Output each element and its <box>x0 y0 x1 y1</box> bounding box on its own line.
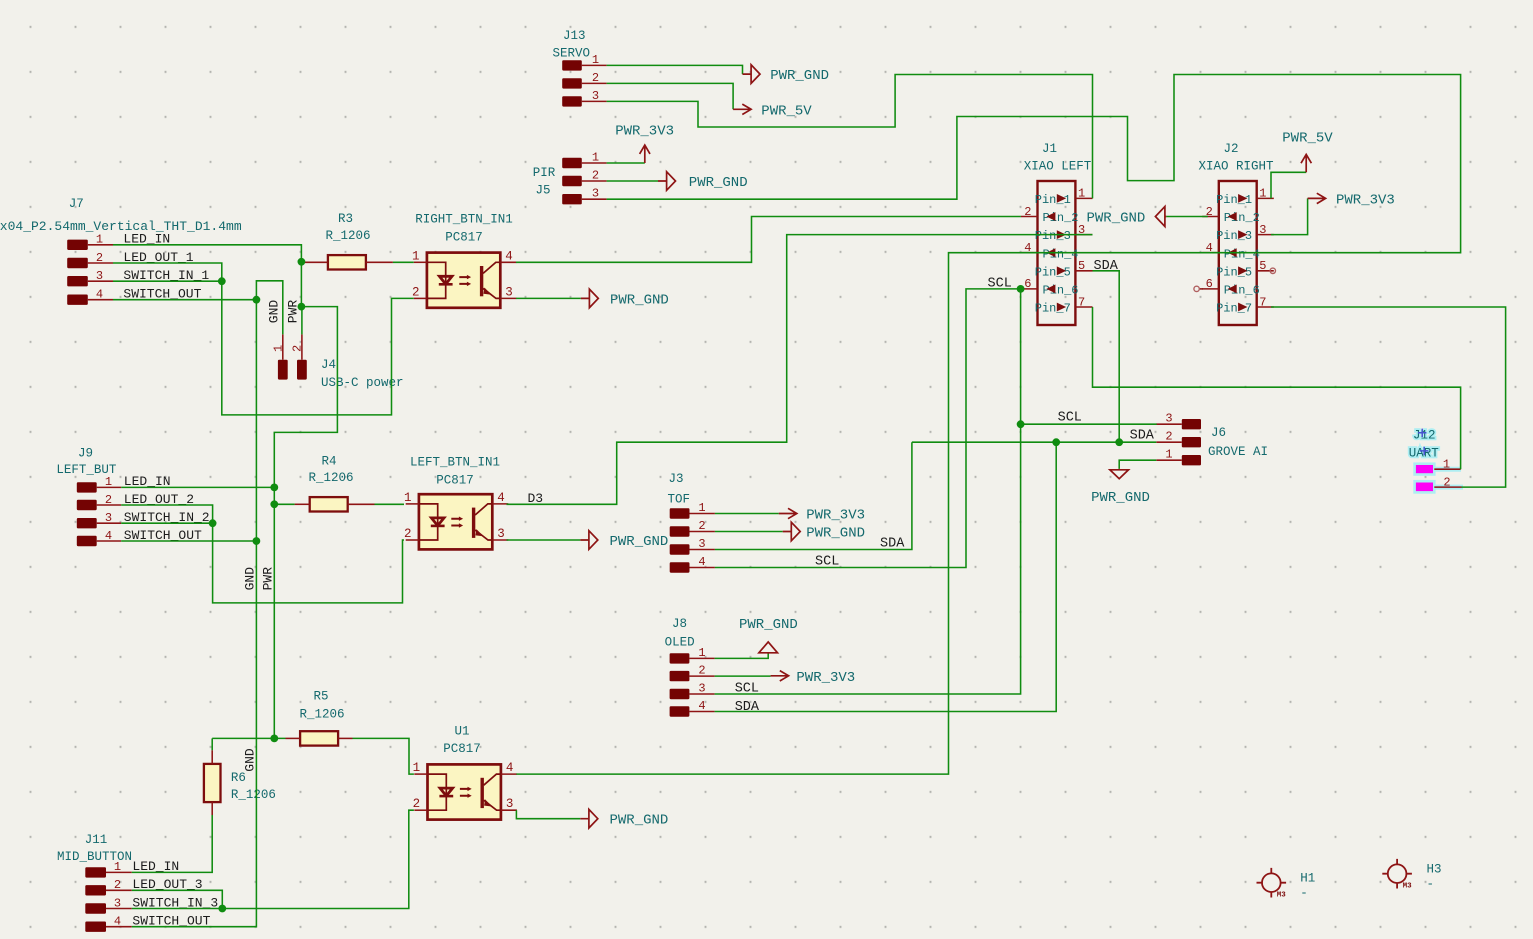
junction at 256.4,541 <box>253 537 261 545</box>
junction at 274.3,738.4 <box>270 735 278 743</box>
J1 pin 2 stub <box>1021 216 1038 218</box>
J12 pin 1 stub <box>1434 468 1460 470</box>
wire J4 pin2 riser <box>301 307 303 335</box>
svg-text:PIR: PIR <box>533 166 556 180</box>
svg-text:7: 7 <box>1259 295 1266 309</box>
wire SDA to J3 pin3 <box>715 442 912 549</box>
svg-text:2: 2 <box>1443 476 1450 490</box>
svg-text:SERVO: SERVO <box>553 47 591 61</box>
svg-text:1: 1 <box>1443 457 1450 471</box>
J2 pin 1 stub <box>1257 197 1274 199</box>
J6 pad 2 <box>1182 437 1201 447</box>
connector J9 LEFT_BUT <box>56 447 209 547</box>
connector J3 TOF <box>667 472 714 573</box>
J13 pad 1 <box>562 60 582 70</box>
svg-text:5: 5 <box>1259 259 1266 273</box>
svg-text:GND: GND <box>243 567 258 591</box>
svg-text:XIAO LEFT: XIAO LEFT <box>1024 160 1092 174</box>
svg-text:2: 2 <box>1024 205 1031 219</box>
connector J5 PIR <box>533 150 607 204</box>
svg-text:PWR_GND: PWR_GND <box>610 534 669 550</box>
svg-text:R_1206: R_1206 <box>308 471 353 485</box>
svg-text:1: 1 <box>698 646 705 660</box>
optocoupler U1 body <box>428 764 501 819</box>
J2 pin 3 input triangle <box>1238 230 1247 239</box>
wire J2 pin7 to J12 pin2 <box>1271 307 1506 487</box>
wire J11 SWITCH_IN_3 to U1 pin2 <box>132 810 414 908</box>
svg-text:2: 2 <box>698 519 705 533</box>
svg-text:Pin_6: Pin_6 <box>1043 284 1079 298</box>
connector J11 MID_BUTTON <box>57 833 218 932</box>
J8 pin 4 stub <box>689 711 714 713</box>
wire J2 pin1 to PWR_5V <box>1271 172 1306 198</box>
svg-text:2: 2 <box>592 71 599 85</box>
power symbol PWR_3V3 at J3 pin1 <box>779 508 797 518</box>
J9 pad 4 <box>77 536 97 546</box>
svg-text:Pin_7: Pin_7 <box>1216 302 1252 316</box>
svg-text:1: 1 <box>404 491 412 505</box>
power symbol PWR_GND at J3 pin2 <box>783 522 801 541</box>
svg-text:6: 6 <box>1206 277 1213 291</box>
J3 pad 4 <box>670 562 690 572</box>
svg-text:3: 3 <box>114 896 121 910</box>
svg-text:PWR_GND: PWR_GND <box>1091 490 1150 506</box>
svg-text:U1: U1 <box>454 724 469 738</box>
power symbol PWR_GND at SERVO pin1 <box>743 65 761 84</box>
power symbol PWR_GND at J2 pin2 pointing left <box>1155 207 1166 227</box>
svg-text:R6: R6 <box>231 771 246 785</box>
J7 pad 3 <box>67 276 88 286</box>
power symbol PWR_5V at SERVO pin2 <box>733 104 751 114</box>
U_left pin 4 stub <box>492 503 508 505</box>
U_right internal LED <box>427 262 446 298</box>
J2 pin 7 stub <box>1257 306 1274 308</box>
wire RIGHT_BTN optocoupler pin4 to J1 pin2 <box>516 217 1021 263</box>
J2 pin 6 open end circle <box>1194 286 1199 291</box>
wire SERVO pin3 5V to J1 pin1 <box>607 75 1093 199</box>
wire J9 SWITCH_IN_2 <box>121 522 212 524</box>
J8 pad 3 <box>670 689 690 699</box>
J5 pin 1 stub <box>582 162 607 164</box>
wire U1 pin3 to PWR_GND <box>516 810 580 819</box>
svg-text:J12: J12 <box>1413 428 1436 442</box>
J4 pin 2 stub <box>301 334 303 359</box>
svg-text:GROVE AI: GROVE AI <box>1208 445 1268 459</box>
svg-text:Pin_7: Pin_7 <box>1035 302 1071 316</box>
J13 pin 1 stub <box>582 64 607 66</box>
U1 phototransistor <box>481 778 484 808</box>
wire PIR pin1 to PWR_3V3 <box>607 162 645 164</box>
wire SDA row to J6 pin2 <box>912 441 1156 443</box>
J13 pin 2 stub <box>582 82 607 84</box>
svg-text:SDA: SDA <box>1130 428 1155 443</box>
J9 pad 2 <box>77 500 97 510</box>
J8 pin 1 stub <box>689 657 714 659</box>
svg-text:7: 7 <box>1078 295 1085 309</box>
J2 pin 5 open end circle <box>1270 268 1275 273</box>
J5 pin 3 stub <box>582 198 607 200</box>
optocoupler U_right body <box>427 253 500 308</box>
svg-text:2: 2 <box>592 168 599 182</box>
J2 pin 5 input triangle <box>1238 266 1247 275</box>
svg-text:4: 4 <box>505 249 513 263</box>
wire PIR pin2 to PWR_GND <box>607 180 658 182</box>
svg-text:TOF: TOF <box>667 493 690 507</box>
junction at 1020.6,424.2 <box>1017 420 1025 428</box>
svg-text:PWR: PWR <box>286 300 301 324</box>
J1 pin 1 input triangle <box>1057 194 1066 203</box>
J6 pad 1 <box>1182 455 1201 465</box>
svg-text:PWR_3V3: PWR_3V3 <box>796 670 855 686</box>
mounting hole H3 <box>1382 859 1412 889</box>
wire SCL to J6 pin3 <box>1021 423 1157 425</box>
J2 pin 7 input triangle <box>1238 303 1247 312</box>
svg-text:GND: GND <box>243 748 258 772</box>
U_left light arrows <box>451 519 460 526</box>
svg-text:R5: R5 <box>313 690 328 704</box>
junction at 1020.6,288.9 <box>1017 285 1025 293</box>
svg-text:1: 1 <box>1259 187 1266 201</box>
J3 pad 3 <box>670 544 690 554</box>
wire J6 pin1 to PWR_GND <box>1119 460 1156 469</box>
J4 pin 1 stub <box>282 334 284 359</box>
wire J2 pin3 to PWR_3V3 <box>1271 198 1308 234</box>
R5 right lead <box>338 737 352 739</box>
svg-text:Pin_2: Pin_2 <box>1043 211 1079 225</box>
svg-text:Pin_6: Pin_6 <box>1224 284 1260 298</box>
wire J7 LED_OUT_1 to optocoupler pin2 <box>113 263 414 415</box>
J2 pin 2 stub <box>1202 216 1219 218</box>
svg-text:1: 1 <box>1078 187 1085 201</box>
J1 pin 5 input triangle <box>1057 266 1066 275</box>
U1 internal LED <box>428 774 447 810</box>
R4 right lead <box>348 503 375 505</box>
resistor R5 <box>300 731 338 745</box>
svg-text:R_1206: R_1206 <box>299 708 344 722</box>
J12 selection cursor marks <box>1418 429 1428 456</box>
svg-text:4: 4 <box>506 761 514 775</box>
svg-text:Pin_3: Pin_3 <box>1216 229 1252 243</box>
R4 left lead <box>295 503 310 505</box>
svg-text:Pin_4: Pin_4 <box>1043 247 1079 261</box>
svg-text:Pin_3: Pin_3 <box>1035 229 1071 243</box>
J12 pad 1 <box>1415 464 1435 475</box>
J11 pad 2 <box>85 885 106 895</box>
svg-text:-: - <box>1300 887 1308 901</box>
J12 pad 2 <box>1415 481 1435 492</box>
power symbol PWR_GND at J6 pin1 pointing down <box>1110 469 1129 479</box>
wire PWR rail from J7 LED_IN <box>113 245 337 739</box>
J7 pin 3 stub <box>88 280 113 282</box>
wire R4 to LEFT_BTN optocoupler pin1 <box>375 503 405 505</box>
J9 pin 1 stub <box>97 486 122 488</box>
svg-text:J7: J7 <box>69 197 84 211</box>
svg-text:J4: J4 <box>321 358 336 372</box>
U1 light arrows <box>460 789 469 796</box>
J7 pad 2 <box>67 258 88 268</box>
svg-text:1: 1 <box>412 249 420 263</box>
J5 pad 3 <box>562 194 582 204</box>
J11 pin 2 stub <box>106 889 132 891</box>
svg-text:PC817: PC817 <box>445 230 483 244</box>
J11 pin 1 stub <box>106 871 132 873</box>
J5 pad 2 <box>562 176 582 186</box>
svg-text:SCL: SCL <box>1058 410 1082 425</box>
svg-text:PWR_3V3: PWR_3V3 <box>615 124 674 140</box>
wire R6 top to R5 left <box>212 737 285 739</box>
svg-text:2: 2 <box>291 345 305 352</box>
svg-text:PWR_GND: PWR_GND <box>806 526 865 542</box>
svg-text:3: 3 <box>698 537 705 551</box>
U_left pin 2 stub <box>406 539 419 541</box>
svg-text:M3: M3 <box>1403 883 1413 891</box>
U1 pin 2 stub <box>414 809 427 811</box>
wire SERVO pin1 to PWR_GND <box>607 65 743 74</box>
J3 pin 3 stub <box>690 549 715 551</box>
svg-text:1: 1 <box>592 53 599 67</box>
J1 pin 7 input triangle <box>1057 303 1066 312</box>
J2 pin 3 stub <box>1257 234 1274 236</box>
optocoupler U_left body <box>419 494 492 549</box>
svg-text:PWR: PWR <box>261 567 276 591</box>
wire J11 LED_OUT_3 <box>132 890 223 908</box>
svg-text:J6: J6 <box>1211 426 1226 440</box>
svg-text:1: 1 <box>272 345 286 352</box>
svg-text:LEFT_BTN_IN1: LEFT_BTN_IN1 <box>410 456 500 470</box>
J9 pin 4 stub <box>97 540 122 542</box>
J6 pin 2 stub <box>1156 441 1182 443</box>
svg-text:J11: J11 <box>85 833 108 847</box>
connector J8 OLED <box>665 617 715 717</box>
U_left phototransistor <box>472 508 475 538</box>
svg-text:2: 2 <box>114 878 121 892</box>
svg-text:SDA: SDA <box>735 700 760 715</box>
svg-text:J5: J5 <box>535 184 550 198</box>
J2 pin 6 stub <box>1202 288 1219 290</box>
J1 pin 6 input triangle <box>1046 285 1055 294</box>
J9 pin 3 stub <box>97 522 122 524</box>
J6 pad 3 <box>1182 419 1201 429</box>
J3 pin 4 stub <box>690 567 715 569</box>
svg-text:SDA: SDA <box>1094 259 1119 274</box>
J2 pin 6 stub extension <box>1199 288 1203 290</box>
svg-text:1: 1 <box>413 761 421 775</box>
J1 pin 3 input triangle <box>1057 230 1066 239</box>
wire GND rail from J4 pin1 to J11 SWITCH_OUT <box>132 281 283 927</box>
svg-text:1x04_P2.54mm_Vertical_THT_D1.4: 1x04_P2.54mm_Vertical_THT_D1.4mm <box>0 219 242 234</box>
J13 pin 3 stub <box>582 100 607 102</box>
svg-text:SCL: SCL <box>735 681 759 696</box>
svg-text:H3: H3 <box>1427 863 1442 877</box>
svg-text:3: 3 <box>592 187 599 201</box>
J3 pad 1 <box>670 508 690 518</box>
wire J1 pin6 SCL to J3 pin4 <box>715 289 1021 568</box>
svg-text:3: 3 <box>592 89 599 103</box>
svg-text:3: 3 <box>497 527 505 541</box>
J7 pin 4 stub <box>88 299 113 301</box>
J2 pin 1 input triangle <box>1238 194 1247 203</box>
J2 pin 2 input triangle <box>1228 212 1237 221</box>
svg-text:SCL: SCL <box>988 277 1012 292</box>
wire J3 pin1 to PWR_3V3 <box>715 513 779 515</box>
wire LEFT_BTN optocoupler pin3 to PWR_GND <box>507 539 581 541</box>
J6 pin 3 stub <box>1156 423 1182 425</box>
J1 pin 2 input triangle <box>1046 212 1055 221</box>
J8 pin 2 stub <box>689 675 714 677</box>
wire R3 to RIGHT_BTN optocoupler pin1 <box>393 261 414 263</box>
U_right light arrows <box>459 277 468 284</box>
J11 pad 1 <box>85 867 106 877</box>
svg-text:R4: R4 <box>321 455 336 469</box>
svg-text:Pin_5: Pin_5 <box>1216 265 1252 279</box>
svg-text:2: 2 <box>96 251 103 265</box>
svg-text:MID_BUTTON: MID_BUTTON <box>57 850 132 864</box>
wire SERVO pin2 to PWR_5V <box>607 83 734 109</box>
svg-text:GND: GND <box>267 300 282 324</box>
U_left pin 1 stub <box>406 503 419 505</box>
connector J7 <box>0 197 242 305</box>
J2 pin 4 input triangle <box>1228 248 1237 257</box>
mounting hole H1 <box>1257 868 1287 898</box>
J9 pin 2 stub <box>97 504 122 506</box>
R6 top lead <box>211 750 213 764</box>
svg-text:SCL: SCL <box>815 555 839 570</box>
wire J9 SWITCH_OUT to GND rail <box>121 540 256 542</box>
svg-text:J8: J8 <box>672 617 687 631</box>
svg-text:6: 6 <box>1024 277 1031 291</box>
J11 pin 4 stub <box>106 926 132 928</box>
connector J13 SERVO <box>553 29 607 107</box>
J1 pin 4 input triangle <box>1046 248 1055 257</box>
J7 pin 1 stub <box>88 244 113 246</box>
wire R6 bottom to J11 LED_IN <box>132 815 212 872</box>
junction at 1056.2,442.2 <box>1052 438 1060 446</box>
wire J2 pin2 to PWR_GND <box>1166 216 1208 218</box>
J5 pin 2 stub <box>582 180 607 182</box>
svg-text:2: 2 <box>698 664 705 678</box>
wire J3 pin2 to PWR_GND <box>715 531 783 533</box>
svg-text:3: 3 <box>506 797 514 811</box>
svg-text:PC817: PC817 <box>443 742 481 756</box>
svg-text:PWR_3V3: PWR_3V3 <box>1336 192 1395 208</box>
wire D3 net optocoupler pin4 to J1 pin3 <box>507 235 1093 505</box>
svg-text:LEFT_BUT: LEFT_BUT <box>56 463 117 477</box>
svg-text:Pin_4: Pin_4 <box>1224 247 1260 261</box>
wire J7 SWITCH_OUT to GND rail <box>113 299 256 301</box>
junction at 212.6,523.2 <box>209 519 217 527</box>
wire R5 to U1 pin1 <box>353 738 414 774</box>
svg-text:PWR_5V: PWR_5V <box>1282 131 1333 147</box>
power symbol PWR_5V at J2 pin1 <box>1301 154 1311 172</box>
svg-text:PWR_GND: PWR_GND <box>1086 211 1145 227</box>
svg-text:2: 2 <box>412 285 420 299</box>
svg-text:4: 4 <box>105 529 112 543</box>
junction at 301.4,306.6 <box>298 303 306 311</box>
connector J1 box <box>1038 181 1076 325</box>
junction at 256.4,299.7 <box>253 296 261 304</box>
svg-text:J13: J13 <box>563 29 586 43</box>
svg-text:D3: D3 <box>528 491 544 506</box>
svg-text:4: 4 <box>96 288 103 302</box>
junction at 301.4,261.8 <box>298 258 306 266</box>
wire PWR rail to R4 <box>274 503 294 505</box>
svg-text:PWR_GND: PWR_GND <box>610 292 669 308</box>
wire J9 LED_OUT_2 to optocoupler pin2 <box>121 505 404 603</box>
junction at 221.8,281.2 <box>218 277 226 285</box>
svg-text:3: 3 <box>105 511 112 525</box>
svg-text:3: 3 <box>96 269 103 283</box>
svg-text:4: 4 <box>114 915 121 929</box>
J11 pin 3 stub <box>106 908 132 910</box>
U1 pin 1 stub <box>414 773 427 775</box>
svg-text:PWR_GND: PWR_GND <box>739 617 798 633</box>
J1 pin 7 stub <box>1075 306 1092 308</box>
J5 pad 1 <box>562 158 582 168</box>
resistor R4 <box>310 497 348 511</box>
svg-text:-: - <box>1427 878 1435 892</box>
J7 pin 2 stub <box>88 262 113 264</box>
svg-text:J3: J3 <box>668 472 683 486</box>
svg-text:Pin_1: Pin_1 <box>1035 193 1071 207</box>
svg-text:J2: J2 <box>1223 142 1238 156</box>
wire OLED pin1 to PWR_GND <box>715 653 769 658</box>
J7 pad 4 <box>67 295 88 305</box>
J1 pin 4 stub <box>1021 252 1038 254</box>
svg-text:Pin_2: Pin_2 <box>1224 211 1260 225</box>
junction at 1119.2,442.2 <box>1115 438 1123 446</box>
power symbol PWR_GND at LEFT_BTN optocoupler pin3 <box>580 531 598 550</box>
power symbol PWR_GND at PIR pin2 <box>658 172 676 191</box>
svg-text:3: 3 <box>1259 223 1266 237</box>
svg-text:PWR_3V3: PWR_3V3 <box>806 508 865 524</box>
svg-text:J9: J9 <box>78 447 93 461</box>
svg-text:2: 2 <box>404 527 412 541</box>
svg-text:1: 1 <box>96 233 103 247</box>
svg-text:3: 3 <box>505 285 513 299</box>
J11 pad 4 <box>85 922 106 932</box>
power symbol PWR_3V3 at J2 pin3 <box>1308 193 1326 203</box>
svg-text:PWR_GND: PWR_GND <box>770 68 829 84</box>
connector J12 UART highlighted <box>1409 428 1463 492</box>
svg-text:H1: H1 <box>1300 872 1315 886</box>
wire R6 top riser <box>211 738 213 750</box>
svg-text:R_1206: R_1206 <box>231 788 276 802</box>
power symbol PWR_3V3 at OLED pin2 <box>771 671 789 681</box>
J13 pad 2 <box>562 78 582 88</box>
J2 pin 6 input triangle <box>1228 285 1237 294</box>
connector J4 USB-C power <box>272 334 404 390</box>
wire SDA branch to OLED pin4 <box>715 442 1057 711</box>
U1 pin 4 stub <box>501 773 517 775</box>
svg-text:Pin_1: Pin_1 <box>1216 193 1252 207</box>
svg-text:2: 2 <box>1165 430 1172 444</box>
svg-text:1: 1 <box>592 150 599 164</box>
U_right pin 2 stub <box>414 297 427 299</box>
svg-text:4: 4 <box>698 699 705 713</box>
J1 pin 1 stub <box>1075 197 1092 199</box>
svg-text:4: 4 <box>497 491 505 505</box>
svg-text:OLED: OLED <box>665 635 695 649</box>
U_left internal LED <box>419 504 438 540</box>
power symbol PWR_GND at RIGHT_BTN optocoupler pin3 <box>581 289 599 308</box>
wire J1 pin7 to J12 pin1 <box>1093 307 1461 469</box>
J8 pad 2 <box>670 671 690 681</box>
J3 pad 2 <box>670 526 690 536</box>
J3 pin 1 stub <box>690 513 715 515</box>
power symbol PWR_GND at U1 pin3 <box>580 809 598 828</box>
junction at 274.3,504.3 <box>270 500 278 508</box>
wire OLED pin2 to PWR_3V3 <box>715 675 771 677</box>
